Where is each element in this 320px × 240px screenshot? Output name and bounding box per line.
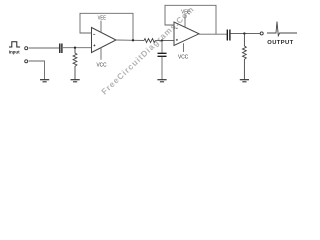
U2 VEE pin wire: [184, 15, 186, 28]
svg-text:FreeCircuitDiagrams.Com: FreeCircuitDiagrams.Com: [99, 4, 196, 97]
node U1 output junction: [132, 39, 134, 41]
svg-text:VEE: VEE: [98, 16, 107, 22]
wire U1 output: [116, 39, 144, 42]
output terminal: [260, 32, 263, 35]
wire J1 to C1: [29, 47, 59, 49]
input terminal J1: [25, 47, 28, 50]
svg-text:VEE: VEE: [181, 10, 190, 16]
input pulse symbol: [9, 42, 20, 47]
wire C3 to output: [231, 33, 260, 35]
feedback wire U2: [165, 5, 216, 34]
U1 VCC pin wire: [100, 47, 102, 59]
node junction at R1: [74, 47, 76, 49]
op-amp U1: [92, 28, 117, 53]
feedback wire U1: [80, 13, 133, 40]
svg-text:VCC: VCC: [178, 55, 188, 61]
U1 minus pin mark: [93, 33, 95, 35]
wire U2 output: [199, 33, 227, 35]
wire J2 to ground: [29, 61, 45, 79]
node junction at C2: [161, 39, 163, 41]
U1 plus pin mark: [93, 44, 95, 46]
op-amp U2: [174, 22, 199, 46]
input terminal J2: [25, 60, 28, 63]
ground below R3: [240, 79, 249, 81]
wire C1 to op-amp U1: [63, 47, 92, 49]
capacitor C1: [59, 44, 61, 54]
U1 VEE pin wire: [100, 21, 102, 33]
resistor R1: [73, 48, 77, 80]
svg-text:VCC: VCC: [97, 63, 107, 69]
ground below C2: [157, 79, 166, 81]
ground below R1: [71, 79, 80, 81]
capacitor C3: [226, 30, 228, 41]
resistor R3: [243, 34, 247, 80]
capacitor C2: [161, 41, 163, 53]
output spike waveform: [267, 22, 297, 36]
U2 VCC pin wire: [183, 43, 185, 52]
ground input: [40, 79, 49, 81]
wire R2 to U2: [155, 40, 174, 42]
node junction at R3: [243, 32, 245, 34]
svg-text:Input: Input: [9, 50, 20, 55]
resistor R2: [144, 39, 155, 43]
svg-text:OUTPUT: OUTPUT: [267, 40, 293, 46]
U2 minus pin mark: [176, 27, 178, 29]
U2 plus pin mark: [176, 39, 178, 41]
